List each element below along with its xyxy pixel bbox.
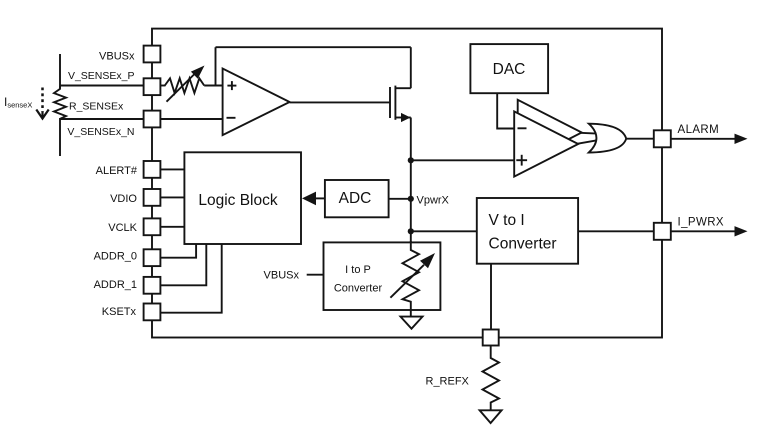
ADC box U6 [325,180,389,217]
svg-text:Converter: Converter [489,235,557,252]
outer IC boundary box [152,29,662,338]
comparator U3 output stub main [577,140,597,144]
variable resistor arrow 2 [390,253,435,298]
ground under variable resistor [401,317,423,329]
wire VCLK to logic block [160,226,184,228]
pin ALERT# [144,161,161,178]
node VpwrX [408,196,414,202]
wire to comparator + input [411,159,514,161]
svg-text:V_SENSEx_N: V_SENSEx_N [67,126,134,138]
svg-text:ADC: ADC [339,190,372,207]
wire VBUSx to I to P converter [307,274,324,276]
pin ADDR_1 [144,277,161,294]
wire ADC to logic block arrow [302,192,325,206]
transistor Q1 drain stub [395,87,410,89]
Logic Block box U5 [184,152,301,244]
svg-text:ALERT#: ALERT# [96,165,138,177]
ground under R_REFX [480,410,502,423]
wire V to I to I_PWRX pin [578,230,654,232]
wire op-amp output to gate [290,101,390,103]
wire V_SENSEx_N [60,118,144,120]
wire OR gate to ALARM pin [626,138,654,140]
wire VDIO to logic block [160,196,184,198]
svg-text:ADDR_1: ADDR_1 [94,279,137,291]
comparator - mark [518,127,527,129]
DAC box U2 [470,44,548,93]
svg-text:I to P: I to P [345,264,371,276]
pin VCLK [144,218,161,235]
wire feedback top line [216,46,411,48]
wire source node line down [410,118,412,251]
wire ADC to node [389,198,411,200]
svg-text:VBUSx: VBUSx [99,50,135,62]
ALARM output arrow [670,134,748,144]
I to P Converter box U7 [324,242,441,310]
comparator U3 output stub back [580,132,597,135]
svg-text:R_SENSEx: R_SENSEx [69,101,124,113]
V to I Converter box U8 [477,198,578,264]
pin V_SENSEx_N [144,111,161,128]
op-amp - mark [227,117,236,119]
wire ADDR_0 to logic block [160,244,196,258]
svg-text:VDIO: VDIO [110,193,137,205]
svg-text:I_PWRX: I_PWRX [678,217,725,229]
wire external VBUS stub bottom [59,118,61,156]
comparator U3 back triangle [518,100,582,165]
pin R_REFX node [483,330,499,346]
svg-text:DAC: DAC [493,61,526,78]
variable resistor I to P output [403,241,420,317]
wire ADDR_1 to logic block [160,244,206,285]
pin I_PWRX [654,223,671,240]
pin V_SENSEx_P [144,78,161,95]
wire DAC to comparator - input [497,93,514,128]
svg-text:VCLK: VCLK [108,222,137,234]
svg-text:KSETx: KSETx [102,306,137,318]
svg-text:VBUSx: VBUSx [264,269,300,281]
variable gain resistor [165,78,204,93]
svg-text:ALARM: ALARM [678,124,720,136]
pin ALARM [654,130,671,147]
current arrow IsenseX (dashed) [36,88,48,119]
svg-text:Logic Block: Logic Block [198,192,278,209]
wire node to V to I converter [411,230,477,232]
wire V to I down to R_REFX node [490,264,492,330]
wire pin to variable resistor [160,85,166,87]
pin VBUSx [144,46,161,63]
OR gate U4 [589,124,626,153]
wire external VBUS stub top [59,54,61,89]
svg-text:V to I: V to I [489,212,525,229]
transistor Q1 source arrow [401,113,411,122]
wire V_SENSEx_N to op-amp - input [160,118,223,120]
comparator + mark [516,155,527,166]
I_PWRX output arrow [670,226,748,236]
pin KSETx [144,304,161,321]
transistor Q1 channel bar [394,86,396,120]
pin VDIO [144,189,161,206]
node V to I branch [408,228,414,234]
wire resistor to op-amp + input [204,85,222,87]
wire KSETx to logic block [160,244,222,313]
wire drain up [410,47,412,88]
svg-text:V_SENSEx_P: V_SENSEx_P [68,70,135,82]
comparator U3 main triangle [514,111,578,176]
resistor R_SENSEx [54,87,66,119]
resistor R_REFX [483,346,500,411]
wire branch up from + input node [215,47,217,85]
wire V_SENSEx_P [60,85,144,87]
svg-text:Converter: Converter [334,283,383,295]
op-amp + mark [227,81,236,90]
svg-text:ADDR_0: ADDR_0 [94,251,137,263]
variable resistor arrow [167,66,205,102]
svg-text:VpwrX: VpwrX [417,194,450,206]
wire ALERT# to logic block [160,168,184,170]
svg-text:R_REFX: R_REFX [426,376,470,388]
transistor Q1 source stub [395,117,410,119]
pin ADDR_0 [144,249,161,266]
op-amp U1 [223,69,290,136]
transistor Q1 gate bar [389,87,391,118]
svg-text:IsenseX: IsenseX [4,95,32,110]
node junction comparator [408,157,414,163]
